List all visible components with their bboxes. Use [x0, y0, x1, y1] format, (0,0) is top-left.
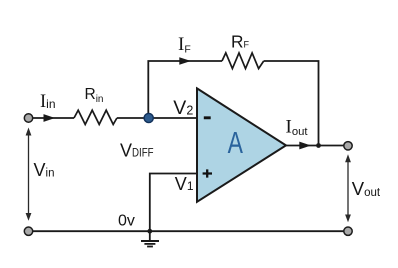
svg-text:Iout: Iout — [286, 117, 308, 139]
svg-text:Vin: Vin — [34, 160, 55, 180]
svg-text:VDIFF: VDIFF — [120, 141, 154, 161]
svg-text:0v: 0v — [118, 213, 135, 230]
svg-text:Rin: Rin — [85, 86, 104, 105]
svg-text:V1: V1 — [175, 174, 194, 194]
svg-text:Vout: Vout — [352, 178, 381, 199]
svg-text:Iin: Iin — [40, 92, 56, 112]
svg-text:A: A — [228, 125, 244, 160]
svg-text:IF: IF — [178, 34, 191, 56]
svg-text:RF: RF — [231, 31, 249, 51]
svg-text:V2: V2 — [173, 97, 193, 119]
